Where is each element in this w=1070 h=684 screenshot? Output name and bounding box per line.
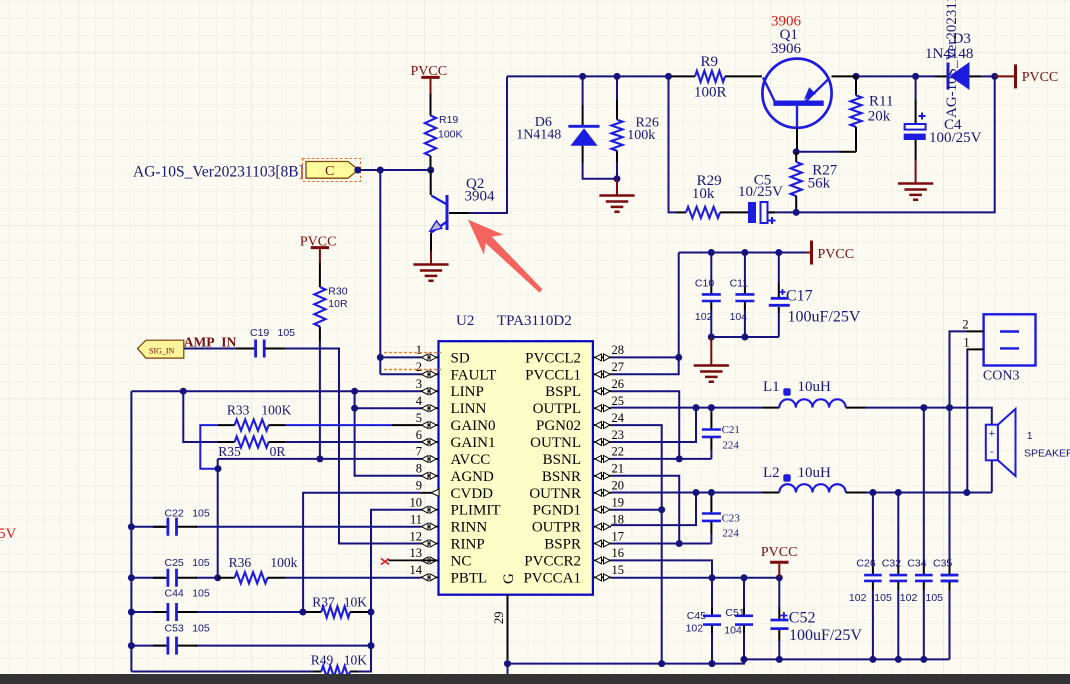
svg-text:RINN: RINN	[451, 520, 488, 536]
junction C51 bottom	[741, 656, 748, 663]
junction Q1/R27/R11	[793, 148, 800, 155]
svg-text:AGND: AGND	[451, 469, 494, 485]
svg-text:105: 105	[192, 588, 210, 600]
resistor R37	[312, 595, 367, 618]
resistor R29	[676, 173, 748, 218]
capacitor C23	[702, 493, 741, 544]
transistor Q1	[762, 14, 858, 151]
junction C32 top	[895, 489, 902, 496]
capacitor C11	[730, 253, 755, 338]
svg-text:RINP: RINP	[451, 537, 485, 553]
svg-text:15: 15	[612, 563, 625, 577]
junction LINN	[351, 405, 358, 412]
capacitor C35	[926, 408, 959, 660]
svg-text:U2: U2	[456, 313, 474, 329]
wire net C to R19/Q2	[358, 169, 430, 171]
svg-text:R9: R9	[701, 54, 719, 70]
wire GAIN0 row (blue)	[286, 424, 421, 426]
svg-text:OUTNR: OUTNR	[529, 486, 581, 502]
junction C45 top	[709, 574, 716, 581]
svg-text:PBTL: PBTL	[451, 570, 488, 586]
wire GAIN1 row	[286, 441, 421, 443]
svg-text:105: 105	[874, 592, 892, 604]
svg-text:C17: C17	[786, 288, 813, 305]
pin 29 GND	[492, 573, 517, 660]
net name 5V (left edge, clipped)	[0, 526, 17, 542]
svg-text:R35: R35	[218, 444, 241, 459]
wire RINN / C22 row	[131, 526, 420, 528]
wire PVCCL2/PVCCL1 to rail	[611, 253, 679, 375]
svg-text:CON3: CON3	[983, 369, 1020, 384]
junction C53/R49	[368, 642, 375, 649]
wire PGND1	[611, 509, 662, 511]
svg-text:PVCCL2: PVCCL2	[525, 350, 581, 366]
svg-text:C32: C32	[882, 558, 901, 570]
svg-text:LINP: LINP	[451, 384, 484, 400]
wire OUTPL / L1 row	[611, 407, 763, 409]
pin 11 RINN	[410, 512, 487, 535]
resistor R26	[611, 76, 658, 178]
wire CON3 pin2 to L1 row	[950, 331, 967, 407]
pin 1 SD	[416, 343, 470, 366]
junction R29 branch	[665, 73, 672, 80]
svg-text:105: 105	[278, 327, 296, 339]
junction C45 bottom	[709, 660, 716, 667]
svg-text:TPA3110D2: TPA3110D2	[497, 313, 572, 329]
svg-text:10K: 10K	[344, 595, 368, 610]
capacitor C10	[695, 253, 721, 338]
svg-text:104: 104	[730, 311, 748, 323]
junction C52 bottom	[776, 656, 783, 663]
junction C44 left	[128, 609, 135, 616]
wire LINN to AGND pin	[355, 408, 421, 476]
wire R30 to AVCC row	[319, 341, 321, 459]
op-amp U2 TPA3110D2 body	[439, 313, 593, 595]
junction C25 left	[128, 574, 135, 581]
pin 23 OUTNL	[530, 428, 624, 451]
svg-text:+: +	[989, 428, 995, 440]
power symbol PVCC (middle)	[300, 235, 337, 263]
svg-text:C10: C10	[695, 278, 714, 290]
svg-text:1: 1	[416, 343, 422, 357]
wire LINN link	[355, 391, 421, 408]
svg-text:12: 12	[410, 529, 423, 543]
pin 12 RINP	[410, 529, 485, 552]
wire AMP_IN	[184, 349, 421, 544]
svg-text:11: 11	[410, 512, 422, 526]
svg-text:100uF/25V: 100uF/25V	[789, 627, 862, 644]
junction C11 bottom	[741, 334, 748, 341]
junction C26 top	[869, 489, 876, 496]
transistor Q2	[430, 170, 495, 251]
svg-text:C34: C34	[907, 558, 926, 570]
wire R49 row	[131, 646, 371, 672]
svg-text:R11: R11	[869, 94, 893, 110]
svg-text:GAIN0: GAIN0	[451, 418, 496, 434]
svg-text:PVCC: PVCC	[1022, 70, 1059, 85]
svg-text:8: 8	[416, 462, 422, 476]
junction C4 top	[912, 73, 919, 80]
svg-text:102: 102	[900, 592, 918, 604]
capacitor C45	[686, 578, 721, 664]
svg-text:GAIN1: GAIN1	[451, 435, 496, 451]
junction C21 top	[708, 404, 715, 411]
svg-text:C45: C45	[687, 610, 706, 622]
junction C17 top	[775, 249, 782, 256]
pin 17 BSPR	[544, 529, 624, 552]
pin 16 PVCCR2	[524, 546, 624, 569]
capacitor C52 (polarized)	[771, 578, 863, 660]
resistor R27	[791, 152, 838, 213]
svg-text:224: 224	[722, 528, 739, 540]
svg-text:105: 105	[192, 508, 210, 520]
pin 3 LINP	[416, 377, 484, 400]
wire AVCC row	[218, 459, 421, 578]
junction C53 left	[128, 642, 135, 649]
speaker symbol	[986, 409, 1070, 493]
net label C	[303, 159, 361, 182]
junction C32 bottom	[895, 656, 902, 663]
svg-text:AG-10S_Ver20231103[8B]: AG-10S_Ver20231103[8B]	[133, 164, 304, 181]
svg-text:PVCC: PVCC	[818, 247, 855, 262]
wire CON3 pin2 down to C35	[941, 408, 959, 660]
junction LINP/LINN branch	[351, 388, 358, 395]
svg-text:3904: 3904	[465, 189, 496, 205]
svg-text:10uH: 10uH	[798, 465, 832, 481]
wire SD pin1	[380, 356, 420, 358]
svg-text:R33: R33	[227, 402, 250, 417]
pin 26 BSPL	[545, 377, 624, 400]
wire C53 row	[131, 645, 371, 647]
ground below cap bank	[694, 337, 729, 382]
svg-text:23: 23	[612, 428, 625, 442]
wire R29 branch vertical	[669, 76, 677, 212]
wire PLIMIT row	[371, 510, 421, 672]
diode D6	[516, 76, 617, 178]
svg-text:BSPL: BSPL	[545, 384, 581, 400]
capacitor C22	[153, 508, 210, 536]
power symbol PVCC (bottom)	[761, 545, 798, 578]
wire BSNL row	[611, 458, 711, 460]
svg-text:C26: C26	[856, 558, 875, 570]
svg-text:C11: C11	[730, 278, 749, 290]
junction C23 top	[708, 489, 715, 496]
resistor R33	[218, 402, 292, 430]
power symbol PVCC (top right)	[995, 64, 1059, 88]
net name AMP_IN	[184, 335, 237, 350]
wire PVCCR2	[611, 560, 712, 577]
svg-text:29: 29	[492, 612, 506, 625]
capacitor C25	[153, 557, 210, 587]
pin 27 PVCCL1	[525, 360, 624, 383]
junction C10 top	[708, 249, 715, 256]
compile squiggle pin2	[384, 369, 441, 371]
pin 28 PVCCL2	[525, 343, 624, 366]
junction SD	[377, 354, 384, 361]
junction C25/R36	[214, 574, 221, 581]
svg-text:102: 102	[849, 592, 867, 604]
junction R33 bracket	[215, 465, 222, 472]
junction D6/R26 bottom	[614, 175, 621, 182]
wire BSPL to C21 bottom	[611, 391, 679, 459]
pin 13 NC	[410, 546, 472, 569]
junction C22 left	[128, 523, 135, 530]
svg-text:OUTPL: OUTPL	[533, 401, 581, 417]
pin 24 PGN02	[536, 411, 625, 434]
pin 4 LINN	[416, 394, 487, 417]
junction C34 bottom	[920, 656, 927, 663]
inductor L1	[763, 379, 867, 408]
svg-text:102: 102	[695, 311, 713, 323]
svg-text:10K: 10K	[344, 653, 368, 668]
power symbol PVCC (cap bank)	[806, 241, 854, 265]
svg-text:AMP_IN: AMP_IN	[184, 335, 237, 350]
svg-text:104: 104	[724, 625, 742, 637]
capacitor C17 (polarized)	[769, 253, 861, 338]
svg-text:100K: 100K	[261, 402, 291, 417]
svg-text:PLIMIT: PLIMIT	[451, 503, 501, 519]
capacitor C53	[153, 623, 210, 655]
svg-text:10/25V: 10/25V	[738, 184, 783, 200]
wire R36 / PBTL row	[131, 577, 420, 579]
compile squiggle pin1	[384, 352, 441, 354]
pin 21 BSNR	[542, 462, 624, 485]
svg-text:PVCC: PVCC	[761, 545, 798, 560]
junction R37/PLIMIT	[368, 609, 375, 616]
capacitor C5 (polarized)	[738, 173, 783, 225]
svg-text:10uH: 10uH	[798, 379, 832, 395]
junction OUTNR/OUTPR	[693, 489, 700, 496]
svg-text:100K: 100K	[438, 129, 463, 141]
svg-text:102: 102	[686, 622, 704, 634]
svg-text:56k: 56k	[808, 176, 831, 192]
svg-text:21: 21	[612, 462, 625, 476]
rotated sheet title text (vertical)	[944, 0, 960, 118]
left rail wire	[130, 391, 132, 671]
junction C35/CON3	[946, 404, 953, 411]
junction BSNL/BSPL	[676, 455, 683, 462]
junction R11 top	[853, 73, 860, 80]
ground below R26	[599, 179, 634, 212]
svg-text:PVCCR2: PVCCR2	[524, 553, 581, 569]
junction C44/CVDD/R37	[299, 609, 306, 616]
pin 6 GAIN1	[416, 428, 496, 451]
resistor R36	[218, 555, 298, 583]
svg-text:C52: C52	[789, 610, 816, 627]
port SIG_IN	[138, 340, 184, 358]
junction PVCCL2	[675, 354, 682, 361]
junction ground tee	[708, 334, 715, 341]
pin 9 CVDD	[416, 479, 493, 502]
wire BSNR to C23 bottom	[611, 476, 679, 544]
junction node wire C / SD branch	[377, 167, 384, 174]
wire OUTNL link	[611, 408, 696, 442]
svg-text:10: 10	[410, 496, 423, 510]
svg-text:6: 6	[416, 428, 422, 442]
svg-text:NC: NC	[451, 553, 472, 569]
wire L2 output row	[866, 492, 992, 494]
connector CON3	[962, 314, 1035, 383]
svg-text:OUTPR: OUTPR	[532, 520, 581, 536]
resistor R35	[218, 436, 286, 459]
capacitor C32	[874, 493, 907, 660]
junction C26 bottom	[869, 656, 876, 663]
svg-text:R36: R36	[229, 555, 252, 570]
svg-text:PGND1: PGND1	[533, 503, 581, 519]
junction node R19 / Q2	[427, 167, 434, 174]
junction D6 top	[579, 73, 586, 80]
svg-text:28: 28	[612, 343, 625, 357]
svg-text:L1: L1	[763, 379, 780, 395]
resistor R19	[425, 94, 463, 167]
svg-text:R49: R49	[311, 653, 334, 668]
pin 14 PBTL	[410, 563, 488, 586]
junction R27 bottom	[793, 209, 800, 216]
svg-text:R37: R37	[312, 595, 335, 610]
svg-text:3906: 3906	[771, 41, 802, 57]
wire OUTNR / L2 row	[611, 492, 763, 494]
svg-text:OUTNL: OUTNL	[530, 435, 581, 451]
wire L1 output row	[866, 408, 992, 425]
pin 22 BSNL	[543, 445, 624, 468]
svg-text:105: 105	[192, 623, 210, 635]
svg-text:1: 1	[1027, 430, 1033, 442]
svg-text:1: 1	[963, 335, 969, 349]
wire FAULT pin2	[380, 373, 420, 375]
no-connect marker pin13	[381, 559, 439, 565]
svg-text:R30: R30	[328, 286, 347, 298]
svg-text:-: -	[990, 446, 994, 458]
svg-text:20k: 20k	[868, 109, 891, 125]
svg-text:100uF/25V: 100uF/25V	[788, 309, 861, 326]
capacitor C51	[724, 578, 753, 660]
svg-text:L2: L2	[763, 465, 780, 481]
svg-text:1N4148: 1N4148	[516, 128, 561, 143]
svg-text:3: 3	[416, 377, 422, 391]
junction OUTPL/OUTNL	[693, 404, 700, 411]
bottom ground rail	[508, 659, 950, 663]
junction C52/PVCC	[776, 574, 783, 581]
svg-text:13: 13	[410, 546, 423, 560]
svg-text:PVCCA1: PVCCA1	[523, 570, 581, 586]
capacitor C19	[236, 327, 295, 358]
junction CON3 pin1 / speaker	[963, 489, 970, 496]
svg-text:SD: SD	[451, 350, 470, 366]
wire LINP row	[131, 390, 420, 392]
pin 19 PGND1	[533, 496, 624, 519]
wire CVDD row	[303, 493, 420, 612]
pin 5 GAIN0	[416, 411, 496, 434]
svg-text:9: 9	[416, 479, 422, 493]
svg-text:17: 17	[612, 529, 625, 543]
svg-text:22: 22	[612, 445, 625, 459]
junction PGND1	[658, 506, 665, 513]
capacitor C26	[849, 493, 882, 660]
svg-text:16: 16	[612, 546, 625, 560]
svg-text:SPEAKER: SPEAKER	[1024, 448, 1070, 460]
svg-text:27: 27	[612, 360, 625, 374]
svg-text:10R: 10R	[328, 298, 348, 310]
svg-text:PGN02: PGN02	[536, 418, 581, 434]
resistor R49	[311, 653, 367, 678]
capacitor C34	[900, 408, 933, 660]
wire cap bank bottom rail	[711, 336, 779, 338]
resistor R9	[672, 54, 762, 101]
junction at net label tip	[354, 167, 361, 174]
svg-text:AG-10S_Ver2023110: AG-10S_Ver2023110	[944, 0, 960, 118]
diode D3	[925, 31, 981, 90]
junction AVCC/R30	[316, 455, 323, 462]
junction D3 / PVCC right	[991, 73, 998, 80]
wire PVCCA1 row	[611, 577, 779, 579]
svg-text:26: 26	[612, 377, 625, 391]
capacitor C21	[702, 408, 740, 459]
svg-text:0R: 0R	[270, 444, 286, 459]
svg-text:105: 105	[192, 557, 210, 569]
resistor R30	[314, 263, 348, 341]
junction C51 top	[741, 574, 748, 581]
wire CVDD/C44/R37 row	[131, 611, 371, 613]
svg-text:BSPR: BSPR	[544, 537, 581, 553]
sheet title text	[133, 164, 304, 181]
svg-text:14: 14	[410, 563, 423, 577]
svg-text:2: 2	[416, 360, 422, 374]
svg-text:C53: C53	[165, 623, 184, 635]
wire Q1 emitter node to R11 bottom	[796, 151, 856, 153]
svg-text:SIG_IN: SIG_IN	[149, 347, 175, 356]
capacitor C4 (polarized)	[904, 76, 982, 160]
wire Q2 base to top rail	[449, 76, 507, 213]
svg-text:C: C	[325, 164, 334, 179]
svg-text:C23: C23	[722, 513, 741, 525]
inductor L2	[763, 465, 867, 493]
svg-text:224: 224	[722, 440, 739, 452]
capacitor C44	[153, 588, 210, 622]
svg-text:100k: 100k	[627, 128, 655, 143]
svg-text:FAULT: FAULT	[451, 367, 497, 383]
svg-text:AVCC: AVCC	[451, 452, 491, 468]
ground below C4	[898, 160, 933, 200]
pin 18 OUTPR	[532, 512, 624, 535]
svg-text:C51: C51	[725, 607, 744, 619]
resistor R11	[850, 76, 893, 151]
svg-text:G: G	[501, 573, 517, 584]
svg-text:105: 105	[926, 592, 944, 604]
top rail wire PVCC loop	[507, 76, 995, 212]
pin 10 PLIMIT	[410, 496, 501, 519]
wire R35 branch	[183, 391, 218, 442]
junction C11 top	[741, 249, 748, 256]
svg-text:BSNR: BSNR	[542, 469, 581, 485]
svg-text:10k: 10k	[692, 186, 715, 202]
svg-text:C19: C19	[250, 327, 269, 339]
junction pin29 / bottom rail	[504, 660, 511, 675]
pin 20 OUTNR	[529, 479, 624, 502]
svg-text:CVDD: CVDD	[451, 486, 494, 502]
svg-text:2: 2	[962, 318, 968, 332]
junction R26 top	[614, 73, 621, 80]
svg-text:5V: 5V	[0, 526, 17, 542]
pin 7 AVCC	[416, 445, 491, 468]
svg-text:4: 4	[416, 394, 423, 408]
wire PVCC rail top	[679, 252, 806, 254]
pin 2 FAULT	[416, 360, 497, 383]
svg-text:BSNL: BSNL	[543, 452, 581, 468]
svg-text:100/25V: 100/25V	[929, 130, 982, 146]
pin 15 PVCCA1	[523, 563, 624, 586]
svg-text:PVCCL1: PVCCL1	[525, 367, 581, 383]
svg-text:C44: C44	[165, 588, 184, 600]
